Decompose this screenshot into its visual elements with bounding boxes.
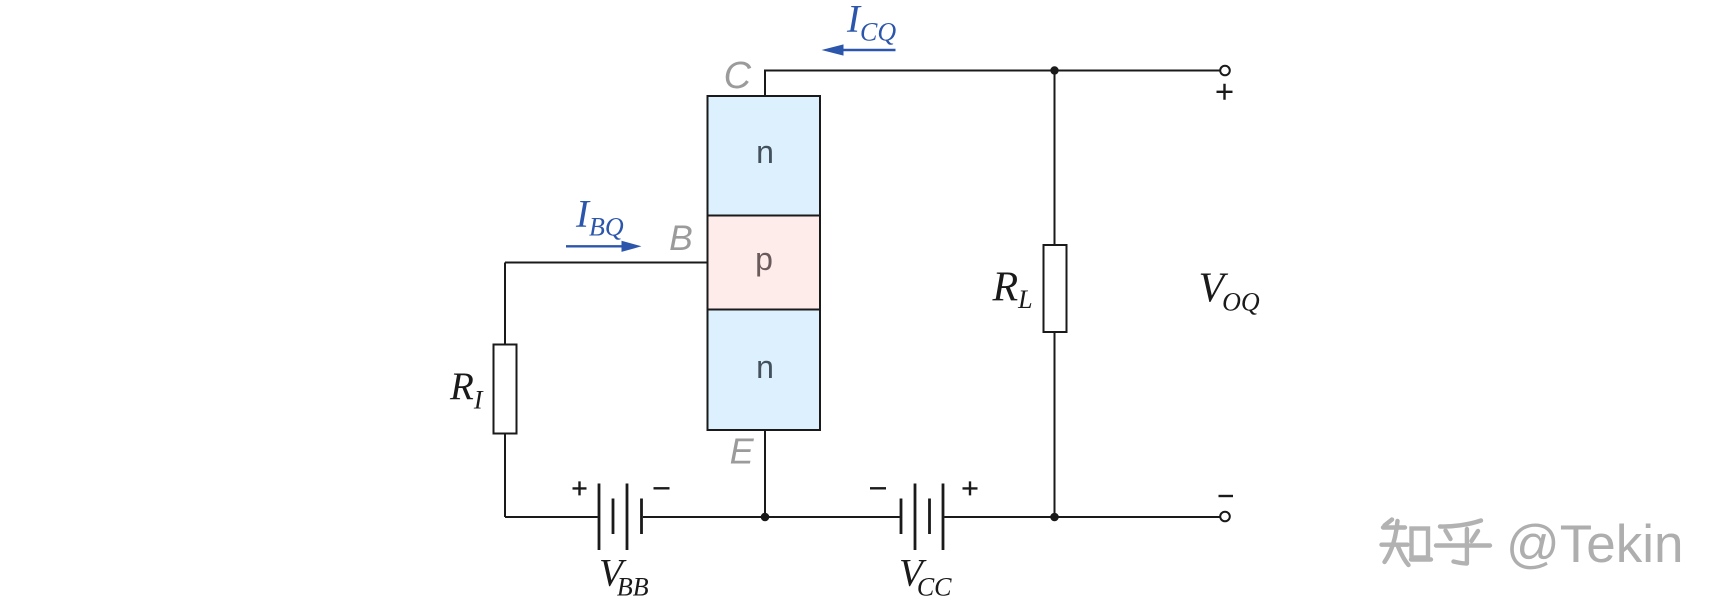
svg-text:ICQ: ICQ — [846, 0, 896, 47]
svg-text:VOQ: VOQ — [1199, 266, 1260, 317]
svg-text:@Tekin: @Tekin — [1506, 515, 1684, 574]
svg-text:IBQ: IBQ — [575, 192, 624, 241]
svg-text:RL: RL — [992, 265, 1033, 315]
svg-text:p: p — [755, 241, 773, 277]
svg-text:E: E — [730, 431, 755, 472]
svg-text:C: C — [724, 55, 752, 97]
svg-text:n: n — [756, 349, 774, 385]
svg-text:RI: RI — [449, 365, 484, 415]
svg-text:VCC: VCC — [899, 552, 952, 602]
svg-text:n: n — [756, 134, 774, 170]
svg-text:VBB: VBB — [599, 552, 649, 602]
svg-text:B: B — [669, 218, 693, 258]
